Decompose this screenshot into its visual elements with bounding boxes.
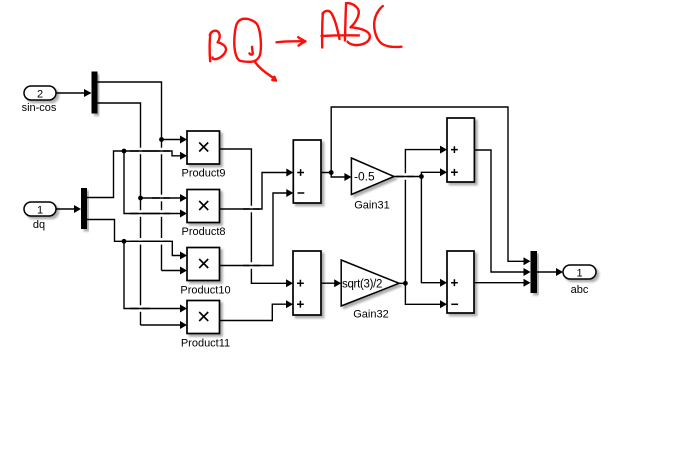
wire Gain32 out riser [399,150,441,284]
svg-text:-0.5: -0.5 [354,170,375,184]
crossover gaps [139,148,408,312]
wire Product11 out to Sum2 [220,304,288,320]
letter D [208,34,211,62]
svg-text:Product8: Product8 [181,226,225,238]
svg-text:Product11: Product11 [181,338,230,350]
wire d net [87,151,181,198]
svg-text:sqrt(3)/2: sqrt(3)/2 [342,279,382,291]
product Product11 [187,301,220,334]
wire Product10 out to Sum1 minus [220,193,288,266]
wire sincos inport to demux [56,92,85,94]
junction dots [122,137,424,286]
wire Gain31 branch to Sum4 plus [421,177,441,283]
arrow [277,41,304,42]
wire q branch to Product11 [124,241,181,308]
re-draw horizontals over gaps [130,151,414,309]
svg-text:Gain31: Gain31 [354,200,389,212]
sum Sum3 [447,118,474,182]
wire sin net [98,82,162,271]
demux sincos bar [92,72,98,114]
demux dq bar [81,188,87,229]
outport 1 abc [563,265,596,279]
sum Sum4 [447,251,474,313]
letter A [321,13,324,48]
wire d branch to Product8 [124,151,181,214]
svg-text:Product9: Product9 [181,168,225,180]
wire Sum1 out to Gain31 [321,173,346,178]
letter C [374,6,401,47]
wire cos net [98,103,141,325]
letter B [345,4,346,41]
wire Gain31 out [394,176,421,178]
svg-text:1: 1 [37,205,43,217]
wire Mux out to outport [537,271,557,273]
wire dq inport to demux [56,208,75,210]
wire Sum3 out to Mux in2 [474,150,524,272]
inport 2 sin-cos [24,86,56,100]
wire q net [87,220,181,256]
wire Sum2 out to Gain32 [321,282,335,284]
svg-text:1: 1 [576,268,582,280]
svg-text:abc: abc [571,284,589,296]
wire Gain31 to Sum3 [421,172,441,176]
svg-text:2: 2 [37,89,43,101]
svg-text:sin-cos: sin-cos [22,102,57,114]
wire Sum4 out to Mux in3 [474,282,525,284]
gain Gain32 [341,260,399,306]
svg-text:dq: dq [33,219,45,231]
wire Sum1 branch to Mux in1 [331,107,524,261]
handwritten red annotation DQ -> ABC [210,3,402,81]
wire Gain32 branch to Sum4 minus [405,283,441,304]
product Product9 [187,131,220,164]
inport 1 dq [24,202,56,216]
product Product10 [187,248,220,281]
mux output bar [531,251,538,293]
gain Gain31 [351,158,394,195]
sum Sum1 [293,140,321,203]
letter Q [234,19,261,62]
wire Product9 out to Sum2 [220,149,288,283]
product Product8 [187,190,220,223]
svg-text:Gain32: Gain32 [353,309,388,321]
sum Sum2 [293,251,321,315]
svg-text:Product10: Product10 [180,285,230,297]
wire Product8 out to Sum1 plus [220,173,288,210]
